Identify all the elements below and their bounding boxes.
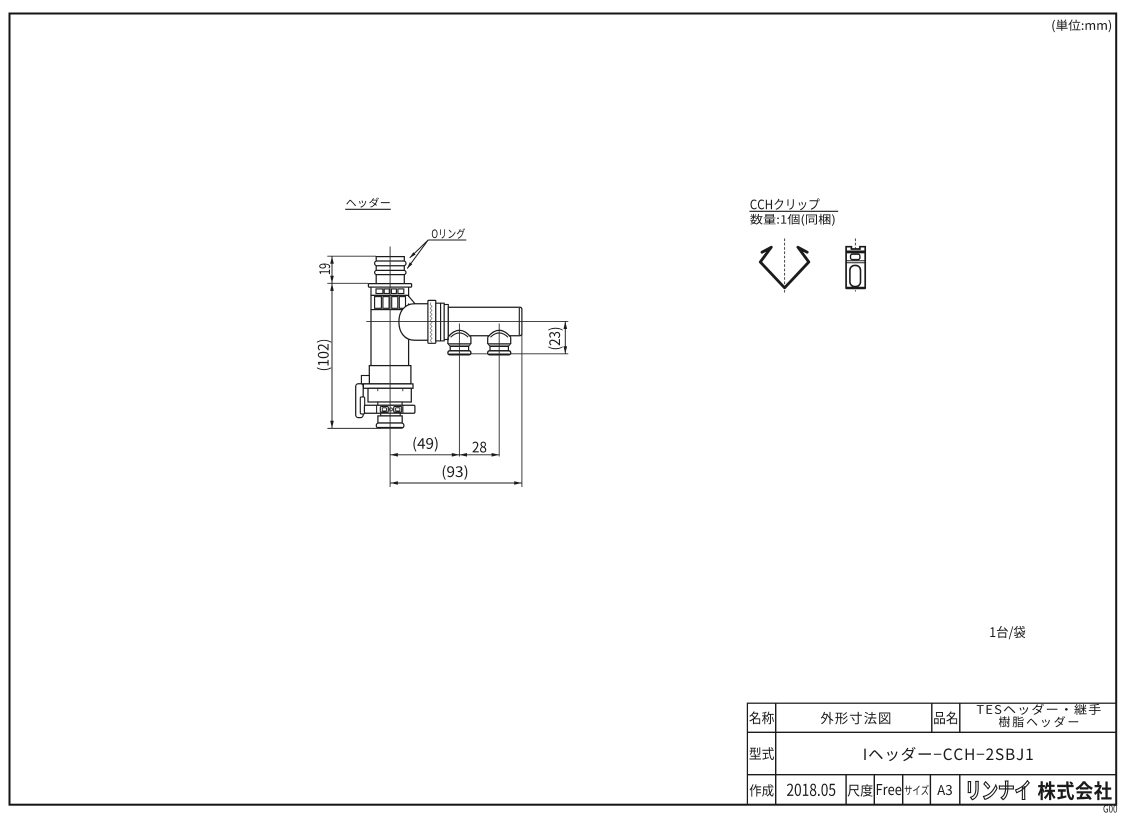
port ring xyxy=(490,346,508,350)
extension line port bottom xyxy=(450,353,568,355)
lower neck 2 xyxy=(381,413,401,416)
port 2 centerline / extension xyxy=(498,324,500,457)
title block label column line xyxy=(775,703,777,805)
port 1 centerline / extension xyxy=(458,324,460,457)
pipe centerline horizontal xyxy=(366,320,568,322)
side clip outline with top notch xyxy=(846,247,865,288)
cell text saizu (size) xyxy=(905,785,929,795)
dimension text (93) xyxy=(443,465,468,480)
port neck walls xyxy=(487,337,489,344)
lower neck 1 xyxy=(378,402,402,405)
cell text Free xyxy=(877,784,901,795)
cell text date 2018.05 xyxy=(787,784,835,797)
side clip stadium slot xyxy=(850,265,861,286)
cell text A3 xyxy=(937,785,952,795)
extension line top (spigot top) xyxy=(327,255,376,257)
side clip dark band xyxy=(846,251,865,253)
bracket inner bar xyxy=(360,397,364,414)
cell text meishou (name) xyxy=(749,711,774,724)
dimension text 19 (rotated) xyxy=(319,264,330,275)
cell text model number I header CCH-2SBJ1 xyxy=(864,747,1032,761)
port bottom flange xyxy=(448,351,471,355)
title block column lines row 3 xyxy=(845,775,847,805)
pipe end face inner line xyxy=(518,308,520,335)
dimension line (23) xyxy=(564,321,566,353)
dimension text (49) xyxy=(413,437,437,452)
title block outer frame xyxy=(747,703,1116,805)
dimension line 19 and (102) xyxy=(331,256,333,428)
horizontal pipe xyxy=(448,307,522,336)
drawing number G00 xyxy=(1103,805,1117,813)
side clip cross lines xyxy=(846,260,865,262)
cell text TES header / fitting line 1 xyxy=(977,704,1101,715)
units note (tan-i:mm) xyxy=(1052,20,1111,33)
kabushiki gaisha text xyxy=(1038,781,1112,800)
cch clip quantity note xyxy=(750,214,834,226)
cell text katashiki (model) xyxy=(749,747,773,760)
title block column lines row 1 xyxy=(931,703,933,732)
union nut knurl xyxy=(430,302,432,342)
label header (heddaa) with underline xyxy=(346,198,389,208)
mounting bracket hook xyxy=(356,384,364,418)
dimension text (23) (rotated) xyxy=(548,328,563,349)
union ring 2 xyxy=(436,303,441,341)
extension line flange top xyxy=(327,282,368,284)
cell text sakusei (created) xyxy=(750,784,774,797)
port neck walls xyxy=(447,337,449,344)
port o-ring groove (shaded) xyxy=(448,344,471,347)
port ring xyxy=(450,346,468,350)
bottom spigot block xyxy=(378,416,402,423)
dimension text (102) (rotated) xyxy=(317,340,332,370)
union ring 3 xyxy=(441,303,445,341)
branch cutout patch xyxy=(408,297,410,304)
spline band 2 xyxy=(371,295,409,309)
port o-ring groove (shaded) xyxy=(488,344,511,347)
o-ring bulge lower xyxy=(375,270,406,274)
lower block xyxy=(368,388,411,402)
v-clip wire outline xyxy=(760,247,809,288)
clip band squares xyxy=(380,407,388,413)
o-ring bulge upper xyxy=(375,261,406,266)
lower left tab xyxy=(361,376,369,384)
center axis vertical line xyxy=(389,247,391,488)
cch clip title with underline xyxy=(751,198,820,210)
spline band 1 xyxy=(371,287,409,295)
rinnai logo text (outlined) xyxy=(968,781,1029,800)
title block row line 2 xyxy=(747,774,1116,776)
cell text resin header line 2 xyxy=(999,716,1078,727)
spline band 2 tabs xyxy=(375,297,382,309)
lower wide flange xyxy=(363,384,413,388)
bottom capsule xyxy=(376,423,404,428)
spline band 1 tabs xyxy=(376,289,383,294)
side clip bottom thick edge xyxy=(846,287,865,289)
union nut xyxy=(428,300,436,343)
dimension line (93) xyxy=(390,482,522,484)
cell text shakudo (scale) xyxy=(848,784,873,796)
extension line pipe right end xyxy=(521,308,523,487)
dimension text 28 xyxy=(472,442,486,453)
o-ring label with underline xyxy=(432,228,465,239)
side clip small slot xyxy=(851,254,860,259)
o-ring leader line 2 with arrow xyxy=(407,240,428,268)
top flange collar xyxy=(368,284,411,288)
elbow bulb xyxy=(399,304,428,341)
top spigot body xyxy=(376,257,404,284)
cell text gaikei sunpouzu (outline dimension drawing) xyxy=(821,712,891,725)
port at x=499.2: dome xyxy=(488,330,511,337)
packaging note 1dai/fukuro xyxy=(990,626,1025,640)
dimension line (49)/28 xyxy=(390,454,499,456)
o-ring leader line 1 with arrow xyxy=(410,240,428,258)
lower step block xyxy=(369,366,411,384)
title block row line 1 xyxy=(747,731,1116,733)
v-clip centerline xyxy=(784,239,786,293)
branch chamfer xyxy=(409,296,415,303)
extension line bottom xyxy=(327,427,381,429)
main body tube sides xyxy=(370,310,372,366)
port at x=459.4: dome xyxy=(448,330,471,337)
cell text hinmei (product name) xyxy=(934,711,957,724)
union transition ring xyxy=(444,305,448,340)
side clip centerline xyxy=(854,239,856,292)
clip band xyxy=(364,405,415,413)
port bottom flange xyxy=(488,351,511,355)
